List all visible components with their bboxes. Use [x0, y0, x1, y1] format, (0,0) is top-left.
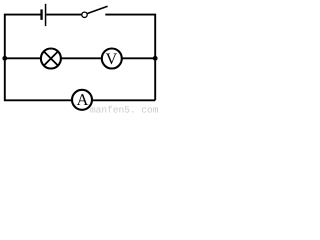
lamp L1 body [41, 49, 61, 69]
wire: middle horizontal [5, 57, 155, 59]
node: right junction dot [153, 56, 158, 61]
voltmeter V body [102, 49, 122, 69]
wire: top-right segment + right side [105, 15, 155, 101]
ammeter A label [77, 94, 89, 105]
ammeter A body [72, 90, 92, 110]
switch blade (open) [87, 6, 108, 13]
lamp L1 cross [44, 52, 58, 66]
battery: short thick plate (negative) [40, 9, 42, 20]
node: left junction dot [2, 56, 7, 61]
voltmeter V label [106, 54, 117, 65]
watermark manfen5.com [90, 106, 157, 113]
switch S pivot circle [82, 12, 87, 17]
wire: top-left segment + left side + bottom-left segment [5, 15, 155, 101]
battery: long thin plate (positive) [45, 4, 47, 26]
wire: battery to switch [46, 14, 82, 16]
